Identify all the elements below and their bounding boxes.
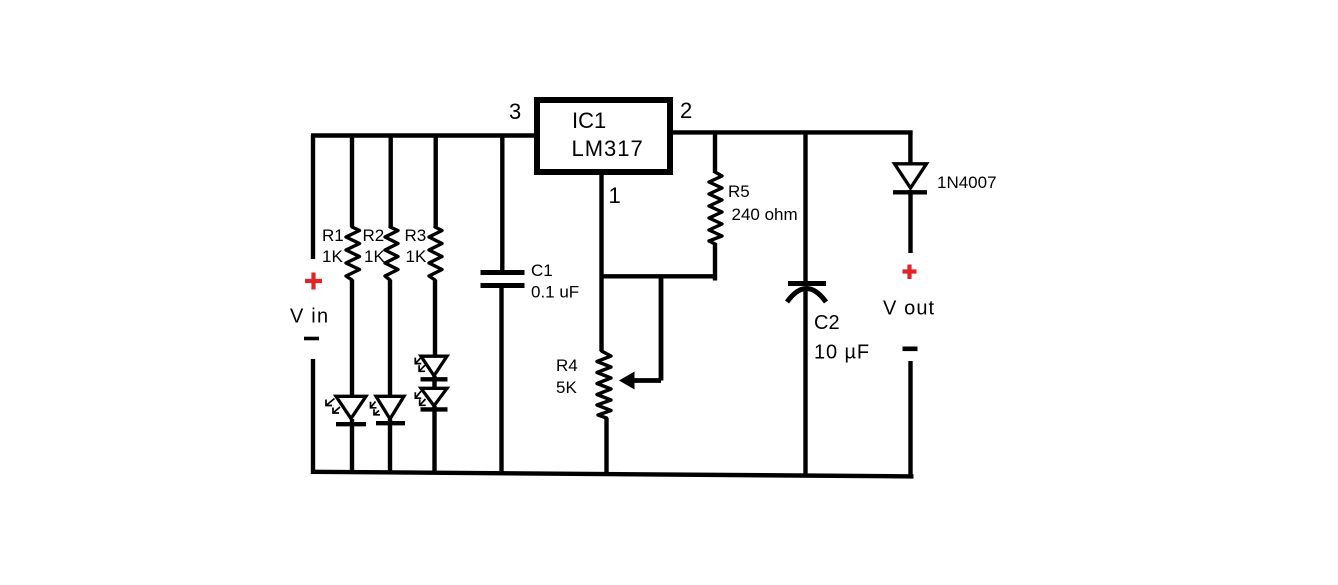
svg-text:V in: V in [290,306,329,328]
svg-text:C1: C1 [531,261,553,280]
svg-text:240 ohm: 240 ohm [732,205,798,224]
svg-text:LM317: LM317 [572,136,644,161]
svg-text:10 µF: 10 µF [814,342,870,364]
svg-text:2: 2 [680,98,692,123]
svg-text:R5: R5 [728,182,750,201]
svg-text:1: 1 [609,183,621,208]
svg-text:1K: 1K [364,247,385,266]
svg-text:R1: R1 [322,226,344,245]
svg-text:5K: 5K [556,378,577,397]
svg-text:0.1 uF: 0.1 uF [531,283,579,302]
svg-text:1K: 1K [406,247,427,266]
svg-text:V out: V out [883,298,935,320]
svg-text:3: 3 [509,99,521,124]
svg-text:R2: R2 [363,226,385,245]
svg-text:R3: R3 [405,226,427,245]
svg-text:1K: 1K [322,247,343,266]
svg-text:1N4007: 1N4007 [937,173,997,192]
svg-text:IC1: IC1 [572,108,606,133]
svg-text:R4: R4 [556,356,578,375]
svg-text:C2: C2 [814,312,840,334]
